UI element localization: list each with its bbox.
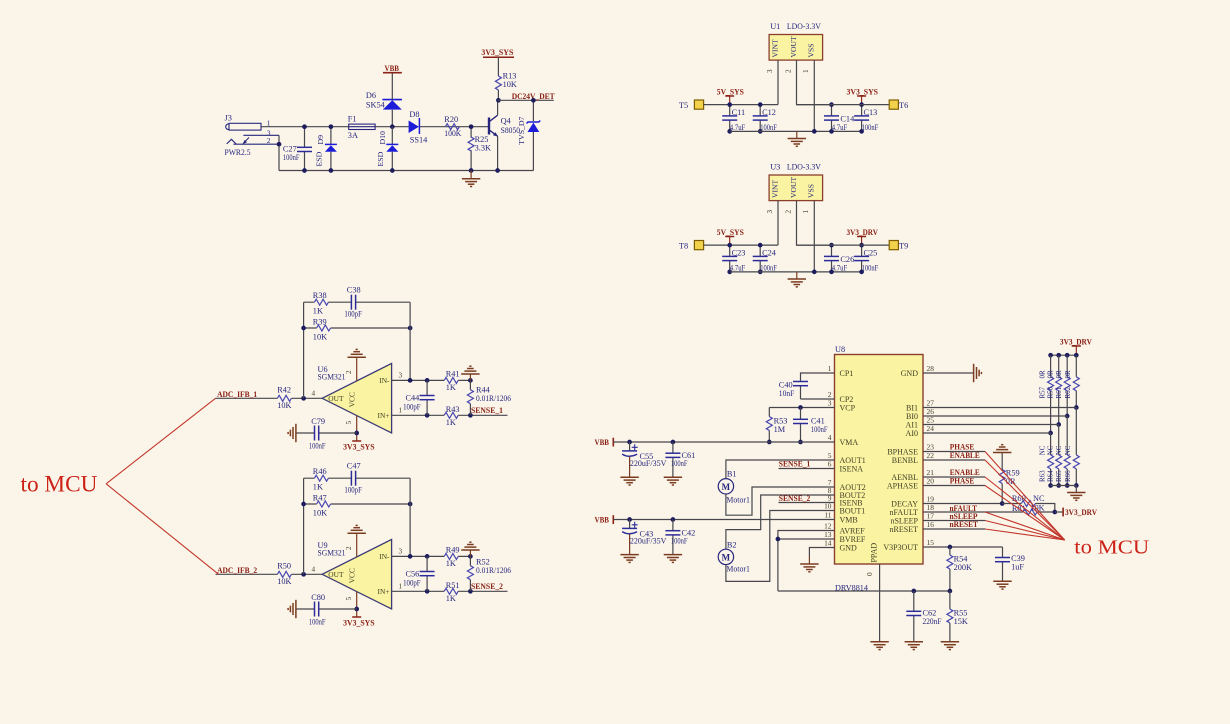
svg-text:D6: D6 — [366, 91, 376, 100]
svg-text:VCC: VCC — [348, 568, 357, 583]
wire: Q4 emitter — [497, 136, 499, 170]
svg-text:R39: R39 — [313, 318, 327, 327]
capacitor C44 100pF — [426, 380, 428, 415]
power port 3V3_SYS — [483, 56, 514, 58]
ground (above R52) — [469, 550, 471, 556]
resistor R13 10K — [495, 76, 501, 90]
svg-text:SENSE_2: SENSE_2 — [471, 582, 503, 591]
wire: input rail — [261, 126, 489, 128]
junction bank top R61 — [1065, 353, 1070, 358]
wire: VMB rail — [613, 519, 834, 521]
svg-text:LDO-3.3V: LDO-3.3V — [787, 22, 821, 31]
power port 3V3_DRV — [857, 236, 866, 238]
power port 5V_SYS — [725, 95, 734, 97]
svg-text:SENSE_1: SENSE_1 — [471, 406, 503, 415]
svg-text:0.01R/1206: 0.01R/1206 — [476, 394, 511, 403]
junction bank bottom R64 — [1056, 483, 1061, 488]
capacitor C23 4.7uF — [729, 245, 731, 272]
svg-text:4: 4 — [312, 566, 316, 574]
wire: bank top rail — [1051, 354, 1077, 356]
svg-text:220uF/35V: 220uF/35V — [630, 537, 667, 546]
resistor R46 1K — [314, 475, 328, 481]
wire: red line pin y=451.5 — [985, 452, 1065, 541]
resistor R64 NC — [1058, 425, 1060, 486]
junction D9 bottom — [329, 168, 334, 173]
IC U8 DRV8814 — [835, 355, 924, 565]
wire: IN+ — [392, 590, 508, 592]
svg-text:OUT: OUT — [328, 570, 344, 579]
power port 3V3_SYS — [352, 616, 361, 618]
svg-text:14: 14 — [824, 539, 832, 548]
svg-text:U1: U1 — [770, 22, 780, 31]
svg-text:3V3_SYS: 3V3_SYS — [481, 48, 513, 57]
wire: AI1 — [923, 424, 1059, 426]
junction R61 to pin wire — [1065, 414, 1070, 419]
resistor R42 10K — [277, 395, 291, 401]
svg-text:VOUT: VOUT — [789, 177, 798, 198]
diode D8 SS14 — [409, 118, 420, 134]
ground (R55) — [941, 642, 959, 650]
svg-text:BOUT1: BOUT1 — [840, 506, 866, 515]
power port 5V_SYS — [725, 236, 734, 238]
svg-text:C62: C62 — [923, 608, 937, 617]
svg-text:C23: C23 — [732, 249, 746, 258]
power port VBB (VMA) — [612, 438, 614, 447]
svg-text:24: 24 — [927, 424, 935, 433]
resistor R60 NC — [1002, 504, 1055, 513]
junction bank top R58 — [1056, 353, 1061, 358]
svg-text:5V_SYS: 5V_SYS — [717, 88, 744, 97]
svg-text:GND: GND — [840, 543, 858, 552]
svg-text:5: 5 — [345, 421, 353, 425]
wire: red line pin y=460 — [985, 460, 1065, 540]
svg-text:0R: 0R — [1055, 370, 1063, 379]
svg-text:R62: R62 — [1064, 386, 1072, 398]
svg-text:C41: C41 — [811, 416, 825, 425]
junction R57 to pin wire — [1048, 431, 1053, 436]
connector J3 (PWR2.5 barrel jack) — [225, 114, 280, 157]
svg-text:100pF: 100pF — [344, 486, 362, 495]
ground (R59) — [993, 445, 1011, 453]
svg-text:3: 3 — [399, 548, 403, 556]
svg-text:R47: R47 — [313, 494, 327, 503]
svg-text:PWR2.5: PWR2.5 — [225, 148, 251, 157]
capacitor C12 100nF — [759, 105, 761, 132]
wire: bank bottom rail — [1051, 485, 1077, 487]
wire: red line pin y=520.5 — [985, 521, 1065, 541]
ground (LDO) — [796, 272, 798, 279]
ground (decoupling) — [288, 424, 296, 442]
svg-text:M: M — [722, 482, 731, 492]
svg-text:PPAD: PPAD — [870, 543, 879, 563]
svg-text:T9: T9 — [899, 242, 908, 251]
wire: feedback right vertical — [409, 478, 411, 556]
svg-text:3.3K: 3.3K — [475, 143, 491, 152]
svg-text:R49: R49 — [446, 545, 460, 554]
ground (pin 14) — [800, 564, 818, 572]
ground (LDO) — [796, 131, 798, 138]
wire: VCC pin — [356, 592, 358, 617]
svg-text:VCC: VCC — [348, 392, 357, 407]
wire: IN+ — [392, 414, 508, 416]
svg-text:ISENA: ISENA — [840, 464, 864, 473]
junction R53 bottom — [767, 440, 772, 445]
svg-text:R50: R50 — [277, 562, 291, 571]
junction VCC/decoupling — [354, 431, 359, 436]
svg-text:BENBL: BENBL — [892, 456, 918, 465]
svg-text:VSS: VSS — [807, 184, 816, 198]
svg-text:ADC_IFB_1: ADC_IFB_1 — [217, 390, 257, 399]
wire: AVREF/BVREF join — [778, 531, 835, 592]
wire: B2 bottom to BOUT1 — [726, 511, 835, 582]
resistor R57 0R — [1050, 355, 1052, 433]
capacitor C14 4.7uF — [831, 105, 833, 132]
wire: GND pin 28 — [923, 372, 973, 374]
svg-text:LDO-3.3V: LDO-3.3V — [787, 163, 821, 172]
wire: ground rail — [730, 130, 862, 132]
svg-text:Motor1: Motor1 — [726, 496, 750, 505]
svg-text:5: 5 — [345, 597, 353, 601]
svg-text:C11: C11 — [732, 108, 746, 117]
svg-text:R46: R46 — [313, 467, 327, 476]
svg-text:10K: 10K — [503, 80, 517, 89]
svg-text:R63: R63 — [1038, 470, 1046, 482]
resistor R58 0R — [1058, 355, 1060, 424]
svg-text:3: 3 — [766, 210, 774, 214]
net label ENABLE (AENBL) — [923, 476, 985, 478]
svg-text:3V3_DRV: 3V3_DRV — [1065, 508, 1097, 517]
svg-text:10K: 10K — [277, 401, 291, 410]
wire: AOUT1 to B1 — [726, 460, 835, 478]
svg-text:1K: 1K — [446, 418, 456, 427]
wire: red line pin y=485.5 — [985, 486, 1065, 541]
junction C41 top — [798, 405, 803, 410]
resistor R51 1K — [444, 588, 458, 594]
junction C27 top — [302, 124, 307, 129]
wire: red line pin y=529 — [985, 529, 1065, 540]
junction R25 bottom — [469, 168, 474, 173]
fuse F1 3A — [348, 115, 375, 140]
TVS diode D7 — [532, 100, 534, 170]
ground (above R44) — [469, 374, 471, 380]
electrolytic capacitor C43 220uF/35V — [627, 517, 632, 522]
ground (pin 28) — [974, 364, 982, 382]
junction R81/3V3_DRV — [1052, 510, 1057, 515]
resistor R55 15K — [949, 591, 951, 641]
svg-text:D10: D10 — [378, 131, 387, 145]
svg-text:2: 2 — [784, 210, 792, 214]
wire: VSS pin — [813, 60, 815, 131]
svg-text:1: 1 — [399, 583, 403, 591]
resistor R59 0R — [1001, 453, 1003, 504]
junction bank bottom R66 — [1074, 483, 1079, 488]
svg-text:V3P3OUT: V3P3OUT — [883, 543, 918, 552]
resistor R81 10K — [1023, 509, 1037, 515]
wire: feedback left vertical — [303, 478, 305, 574]
diode D9 ESD — [330, 127, 332, 171]
net label SENSE_1 (driver) — [779, 468, 835, 470]
net label ADC_IFB_1 — [216, 397, 278, 399]
resistor R53 1M — [768, 408, 770, 443]
wire: Q4 collector — [497, 100, 499, 115]
svg-text:28: 28 — [927, 364, 935, 373]
svg-text:3V3_SYS: 3V3_SYS — [847, 88, 879, 97]
svg-text:15: 15 — [927, 538, 935, 547]
wire: PPAD — [879, 564, 881, 642]
capacitor C79 100nF — [296, 432, 357, 434]
svg-text:SENSE_2: SENSE_2 — [779, 494, 811, 503]
svg-text:VINT: VINT — [770, 180, 779, 198]
resistor R61 0R — [1066, 355, 1068, 416]
svg-text:C12: C12 — [762, 108, 776, 117]
transistor Q4 S8050 — [489, 115, 520, 136]
wire: ground rail — [730, 271, 862, 273]
wire: VINT pin — [777, 60, 779, 105]
svg-text:4.7uF: 4.7uF — [730, 264, 746, 273]
svg-text:M: M — [722, 552, 731, 562]
svg-text:SS14: SS14 — [410, 136, 428, 145]
resistor R65 NC — [1066, 416, 1068, 486]
svg-text:C38: C38 — [347, 286, 361, 295]
junction C27 bottom — [302, 168, 307, 173]
wire: V- pin to ground — [356, 357, 358, 381]
wire: output rail — [797, 244, 890, 246]
wire: VINT pin — [777, 201, 779, 246]
svg-text:B2: B2 — [727, 541, 737, 550]
svg-text:C24: C24 — [762, 249, 777, 258]
svg-text:R51: R51 — [446, 581, 460, 590]
junction bank top R57 — [1048, 353, 1053, 358]
capacitor C24 100nF — [759, 245, 761, 272]
svg-text:R57: R57 — [1038, 386, 1046, 398]
svg-text:to MCU: to MCU — [1074, 537, 1149, 559]
ground (bank) — [1067, 493, 1085, 501]
svg-text:100nF: 100nF — [811, 425, 828, 434]
ground (opamp V-) — [348, 525, 366, 533]
svg-text:R42: R42 — [277, 386, 291, 395]
svg-text:R41: R41 — [446, 369, 460, 378]
svg-text:VINT: VINT — [770, 39, 779, 57]
junction R62 to pin wire — [1074, 405, 1079, 410]
junction C41 bottom — [798, 440, 803, 445]
svg-text:1K: 1K — [446, 559, 456, 568]
svg-text:T5: T5 — [679, 101, 688, 110]
svg-text:3V3_DRV: 3V3_DRV — [847, 228, 879, 237]
ground (decoupling) — [288, 600, 296, 618]
capacitor C38 100pF — [351, 295, 355, 310]
svg-text:11: 11 — [824, 511, 831, 520]
svg-text:VMB: VMB — [840, 515, 858, 524]
svg-text:R66: R66 — [1064, 470, 1072, 482]
svg-text:1uF: 1uF — [1011, 563, 1024, 572]
ground (PPAD) — [870, 642, 888, 650]
resistor R49 1K — [444, 553, 458, 559]
svg-text:nRESET: nRESET — [890, 525, 919, 534]
svg-text:C79: C79 — [311, 417, 325, 426]
svg-text:GND: GND — [901, 369, 919, 378]
svg-text:R38: R38 — [313, 291, 327, 300]
svg-text:4.7uF: 4.7uF — [730, 123, 746, 132]
svg-text:IN+: IN+ — [378, 587, 390, 596]
svg-text:Motor1: Motor1 — [726, 565, 750, 574]
wire: input rail — [704, 104, 778, 106]
svg-text:APHASE: APHASE — [887, 481, 918, 490]
svg-text:NC: NC — [1038, 445, 1046, 455]
svg-text:B1: B1 — [727, 469, 737, 478]
ground (power input) — [470, 171, 472, 179]
svg-text:20: 20 — [927, 477, 935, 486]
resistor R20 100K — [445, 124, 459, 130]
motor connector B2 Motor1 — [718, 549, 733, 564]
svg-text:NC: NC — [1064, 445, 1072, 455]
wire: DRV8814 bottom rail — [778, 590, 950, 592]
wire: BOUT2 to B2 — [726, 495, 835, 549]
svg-text:NC: NC — [1033, 494, 1045, 503]
svg-text:1K: 1K — [313, 482, 323, 491]
svg-text:IN-: IN- — [379, 376, 390, 385]
svg-text:100pF: 100pF — [403, 402, 421, 411]
svg-text:16: 16 — [927, 520, 935, 529]
svg-text:1: 1 — [267, 118, 271, 127]
net label ENABLE (BENBL) — [923, 459, 985, 461]
svg-text:100nF: 100nF — [671, 459, 688, 468]
junction D7 top — [531, 98, 536, 103]
wire: red line pin y=512 — [985, 512, 1065, 540]
svg-text:3A: 3A — [348, 131, 358, 140]
svg-text:2: 2 — [345, 370, 353, 374]
svg-text:IN+: IN+ — [378, 411, 390, 420]
svg-text:Q4: Q4 — [501, 117, 512, 126]
svg-text:220nF: 220nF — [923, 617, 942, 626]
svg-text:TVS_D7: TVS_D7 — [517, 116, 526, 144]
svg-text:PHASE: PHASE — [950, 477, 975, 486]
svg-text:0R: 0R — [1064, 370, 1072, 379]
power port 3V3_DRV (pullup) — [1055, 511, 1063, 513]
terminal T9 — [889, 241, 898, 250]
resistor R66 NC — [1075, 408, 1077, 486]
svg-text:ESD: ESD — [315, 151, 324, 166]
diode D10 ESD — [391, 127, 393, 171]
capacitor C27 — [304, 127, 306, 171]
svg-text:SGM321: SGM321 — [318, 549, 346, 558]
resistor R43 1K — [444, 412, 458, 418]
capacitor C62 220nF — [911, 589, 916, 594]
power port 3V3_SYS — [352, 440, 361, 442]
svg-text:0R: 0R — [1038, 370, 1046, 379]
svg-text:100nF: 100nF — [309, 442, 326, 451]
terminal T8 — [694, 241, 703, 250]
power port VBB (VMB) — [612, 515, 614, 524]
capacitor C80 100nF — [296, 608, 357, 610]
svg-text:NC: NC — [1055, 445, 1063, 455]
svg-text:200K: 200K — [954, 563, 972, 572]
svg-text:T6: T6 — [899, 101, 908, 110]
svg-text:1: 1 — [399, 407, 403, 415]
svg-text:VSS: VSS — [807, 44, 816, 58]
svg-text:2: 2 — [345, 546, 353, 550]
svg-text:CP1: CP1 — [840, 369, 854, 378]
net label DC24V_DET — [498, 99, 554, 101]
svg-text:D8: D8 — [409, 110, 419, 119]
svg-text:1: 1 — [828, 364, 832, 373]
junction bank top R62 — [1074, 353, 1079, 358]
resistor R47 10K — [304, 503, 411, 505]
capacitor C13 100nF — [861, 105, 863, 132]
svg-text:VCP: VCP — [840, 403, 856, 412]
svg-text:22: 22 — [927, 451, 935, 460]
svg-text:100nF: 100nF — [760, 264, 777, 273]
svg-text:3V3_SYS: 3V3_SYS — [343, 618, 375, 627]
svg-text:R61: R61 — [1055, 386, 1063, 398]
wire: ground return rail — [279, 170, 533, 172]
capacitor C40 10nF — [801, 373, 835, 399]
svg-text:10K: 10K — [277, 577, 291, 586]
svg-text:R65: R65 — [1055, 470, 1063, 482]
svg-text:5V_SYS: 5V_SYS — [717, 228, 744, 237]
svg-text:nRESET: nRESET — [950, 520, 979, 529]
capacitor C41 100nF — [800, 408, 802, 443]
capacitor C25 100nF — [861, 245, 863, 272]
wire: J3 pins 2,3 drop — [278, 135, 280, 170]
svg-text:100nF: 100nF — [671, 536, 688, 545]
svg-text:1: 1 — [802, 69, 810, 73]
junction D10 bottom — [390, 168, 395, 173]
net label SENSE_2 (driver) — [779, 502, 835, 504]
LDO regulator U1 — [769, 35, 823, 61]
svg-text:100K: 100K — [444, 129, 461, 138]
svg-text:ENABLE: ENABLE — [950, 451, 980, 460]
power port 3V3_DRV (bank) — [1072, 345, 1081, 347]
junction R25 top — [469, 124, 474, 129]
wire: AI0 — [923, 432, 1051, 434]
net label ADC_IFB_2 — [216, 573, 278, 575]
terminal T5 — [694, 100, 703, 109]
net label nSLEEP — [923, 520, 985, 522]
svg-text:D9: D9 — [316, 135, 325, 145]
svg-text:10K: 10K — [313, 509, 327, 518]
svg-text:R53: R53 — [774, 416, 788, 425]
svg-text:10K: 10K — [313, 333, 327, 342]
svg-text:SK54: SK54 — [366, 101, 386, 110]
svg-text:VBB: VBB — [385, 64, 400, 73]
wire: IN- — [392, 379, 471, 381]
net label nRESET — [923, 528, 985, 530]
svg-text:R20: R20 — [444, 115, 458, 124]
svg-text:15K: 15K — [954, 617, 968, 626]
wire: V3P3OUT net — [923, 546, 1003, 548]
svg-text:C25: C25 — [864, 249, 878, 258]
diode D6 SK54 — [391, 110, 393, 127]
junction bank bottom R65 — [1065, 483, 1070, 488]
op-amp U6 SGM321 — [322, 363, 392, 433]
capacitor C26 4.7uF — [831, 245, 833, 272]
wire: feedback top — [304, 477, 411, 479]
resistor R52 0.01R/1206 — [469, 556, 471, 591]
wire: DECAY net — [923, 503, 1002, 505]
svg-text:to MCU: to MCU — [21, 472, 98, 498]
svg-text:ADC_IFB_2: ADC_IFB_2 — [217, 566, 257, 575]
svg-text:2: 2 — [784, 69, 792, 73]
svg-text:100nF: 100nF — [309, 618, 326, 627]
resistor R54 200K — [949, 547, 951, 591]
junction DC24V_DET node — [496, 98, 501, 103]
svg-text:J3: J3 — [225, 114, 232, 123]
resistor R39 10K — [304, 327, 411, 329]
terminal T6 — [889, 100, 898, 109]
LDO regulator U3 — [769, 175, 823, 201]
electrolytic capacitor C55 220uF/35V — [627, 440, 632, 445]
wire: feedback top — [304, 301, 411, 303]
